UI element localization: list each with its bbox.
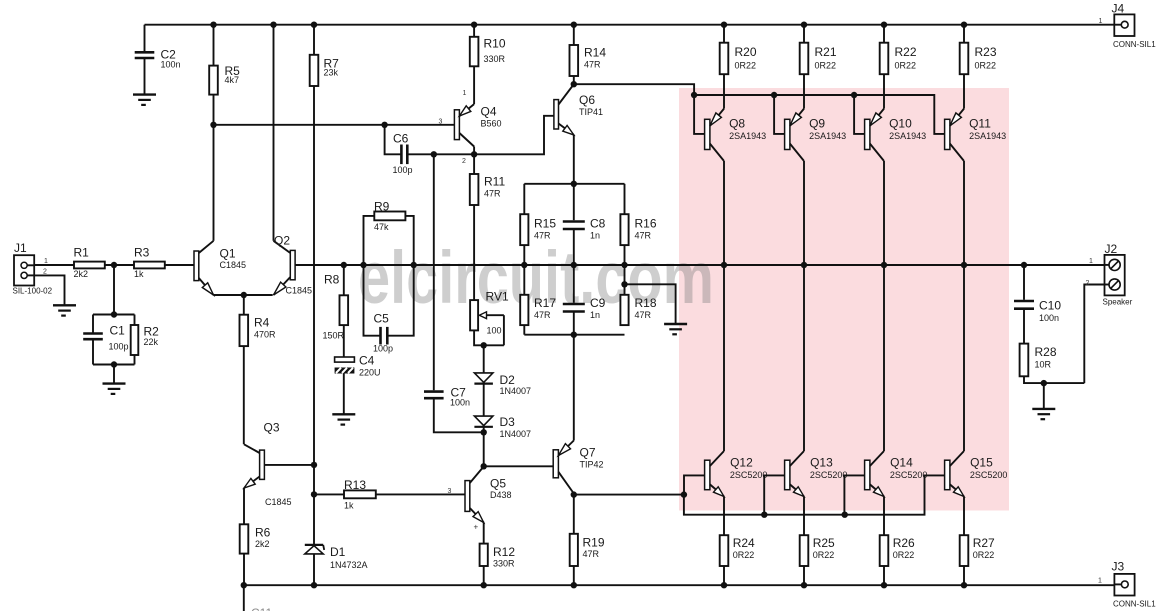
- svg-text:D2: D2: [500, 373, 516, 387]
- svg-text:R18: R18: [635, 296, 657, 310]
- node bottom rail R26: [881, 582, 887, 588]
- svg-text:Q7: Q7: [580, 446, 596, 460]
- node mid rail col Q10: [881, 262, 887, 268]
- wire R24 to rail: [723, 566, 725, 585]
- node Q6 collector R14: [571, 81, 577, 87]
- wire Q7 collector stub: [573, 494, 575, 495]
- resistor R11: [473, 154, 475, 174]
- svg-text:100p: 100p: [373, 344, 393, 354]
- wire D2 to D3: [483, 384, 485, 416]
- node network bottom center: [571, 332, 577, 338]
- node mid rail R8: [341, 262, 347, 268]
- node top rail Q2 collector: [270, 22, 276, 28]
- connector J4: [1114, 14, 1134, 36]
- wire stub below rail: [243, 585, 245, 611]
- svg-text:+: +: [474, 523, 479, 532]
- node bottom rail R27: [961, 582, 967, 588]
- svg-text:R6: R6: [255, 526, 271, 540]
- trimmer RV1: [470, 300, 478, 330]
- wire R11 to RV1: [473, 205, 475, 300]
- node lower bases entry: [681, 491, 687, 497]
- wire R1 to R3: [105, 264, 134, 266]
- node upper bases Q10: [851, 92, 857, 98]
- svg-text:Q4: Q4: [481, 105, 497, 119]
- wire R25 to rail: [803, 566, 805, 585]
- svg-text:R12: R12: [493, 545, 515, 559]
- node upper bases Q9: [771, 92, 777, 98]
- resistor R21: [803, 25, 805, 43]
- wire R26 to rail: [883, 566, 885, 585]
- svg-text:R26: R26: [893, 536, 915, 550]
- svg-text:C5: C5: [374, 312, 390, 326]
- wire lower bases bus: [684, 475, 945, 514]
- node top rail R20: [721, 22, 727, 28]
- svg-text:Q5: Q5: [490, 477, 506, 491]
- wire output mid rail: [295, 264, 1105, 266]
- wire R28 bottom bar: [1024, 376, 1084, 383]
- ground R18: [664, 323, 687, 325]
- wire Q15 emitter down: [963, 497, 965, 536]
- node mid rail C8: [571, 262, 577, 268]
- svg-text:R11: R11: [484, 175, 505, 189]
- svg-text:2SC5200: 2SC5200: [890, 470, 928, 480]
- svg-text:150R: 150R: [323, 331, 345, 341]
- ground C2: [133, 93, 156, 95]
- svg-text:0R22: 0R22: [895, 60, 917, 70]
- output stage highlight region: [679, 88, 1009, 511]
- node top rail R23: [961, 22, 967, 28]
- wire D1 to rail: [313, 554, 315, 585]
- wire J1 pin2 to ground: [34, 275, 64, 305]
- transistor Q14: [865, 460, 870, 490]
- node top rail R21: [801, 22, 807, 28]
- svg-text:1N4732A: 1N4732A: [330, 560, 368, 570]
- node top rail R5: [210, 22, 216, 28]
- node Q4 collector junction: [471, 151, 477, 157]
- wire R18 hook to ground: [625, 284, 676, 324]
- svg-text:R28: R28: [1035, 345, 1057, 359]
- transistor Q2: [290, 250, 295, 279]
- wire Q9 collector to mid rail: [803, 161, 805, 265]
- capacitor C5: [364, 265, 381, 336]
- resistor R1: [74, 262, 105, 269]
- wire RV1 node to D2: [483, 345, 485, 373]
- resistor R7: [313, 25, 315, 55]
- svg-text:D3: D3: [500, 415, 516, 429]
- transistor Q11: [945, 119, 950, 149]
- transistor Q3: [260, 450, 265, 479]
- svg-text:100: 100: [487, 326, 502, 336]
- wire R13 node to D1: [313, 494, 315, 545]
- node mid rail R16: [621, 262, 627, 268]
- svg-text:Q13: Q13: [810, 456, 833, 470]
- resistor R16: [624, 184, 626, 214]
- wire Q8 collector to mid rail: [723, 161, 725, 265]
- wire C1 R2 bottom bar: [93, 364, 135, 366]
- wire Q4 collector stub: [473, 147, 475, 155]
- wire Q13 emitter down: [803, 497, 805, 536]
- svg-text:100p: 100p: [393, 165, 413, 175]
- capacitor C8: [573, 184, 575, 220]
- svg-text:CONN-SIL1: CONN-SIL1: [1113, 40, 1156, 49]
- ground C4: [332, 413, 355, 415]
- wire Q10 collector to mid rail: [883, 161, 885, 265]
- svg-text:47R: 47R: [583, 549, 600, 559]
- svg-text:220U: 220U: [359, 367, 381, 377]
- node top rail R7: [311, 22, 317, 28]
- node C6 right junction: [431, 151, 437, 157]
- wire R4 to Q3 collector: [243, 346, 245, 444]
- wire R10 to Q4 emitter: [473, 66, 475, 104]
- node Q3 base R7 column: [311, 462, 317, 468]
- resistor R25: [800, 535, 809, 566]
- svg-text:0R22: 0R22: [735, 60, 757, 70]
- wire D3 junction down: [483, 432, 485, 466]
- svg-text:J3: J3: [1112, 560, 1125, 574]
- wire upper bases rail: [694, 95, 945, 134]
- wire Q12 emitter down: [723, 497, 725, 536]
- svg-text:R9: R9: [374, 200, 390, 214]
- wire bias rail y125: [214, 124, 455, 126]
- svg-text:R27: R27: [973, 536, 995, 550]
- svg-text:TIP42: TIP42: [580, 459, 604, 469]
- wire to ground R28: [1043, 383, 1045, 409]
- svg-text:1k: 1k: [134, 269, 144, 279]
- svg-text:C1845: C1845: [265, 497, 292, 507]
- zener D1: [305, 544, 323, 546]
- wire Q10 base hook: [854, 95, 865, 134]
- node D3 C7 junction: [481, 429, 487, 435]
- wire D3 to junction: [483, 427, 485, 432]
- wire upper base drive: [574, 84, 694, 95]
- svg-text:R21: R21: [815, 45, 837, 59]
- connector J2: [1105, 255, 1125, 296]
- node R28 ground: [1041, 380, 1047, 386]
- resistor R6: [240, 524, 249, 553]
- svg-text:RV1: RV1: [486, 290, 509, 304]
- svg-text:47R: 47R: [635, 230, 652, 240]
- svg-text:R4: R4: [254, 316, 270, 330]
- node R18 ground hook: [621, 281, 627, 287]
- resistor R18: [624, 265, 626, 295]
- node mid rail R9C5 left: [360, 262, 366, 268]
- svg-text:22k: 22k: [144, 337, 159, 347]
- wire R21 to emitter: [803, 74, 805, 108]
- svg-text:100n: 100n: [1039, 313, 1059, 323]
- svg-text:R24: R24: [733, 536, 755, 550]
- svg-text:R8: R8: [324, 273, 340, 287]
- capacitor C1: [92, 315, 94, 333]
- svg-text:2SA1943: 2SA1943: [729, 131, 766, 141]
- svg-text:R3: R3: [134, 246, 150, 260]
- node Q5 collector junction: [481, 463, 487, 469]
- svg-text:47R: 47R: [584, 59, 601, 69]
- svg-text:C11: C11: [251, 606, 272, 611]
- wire Q13 base hook: [764, 475, 784, 514]
- svg-text:2SA1943: 2SA1943: [969, 131, 1006, 141]
- svg-text:100p: 100p: [109, 342, 129, 352]
- svg-text:C1: C1: [110, 324, 126, 338]
- wire to ground below C1 R2: [113, 365, 115, 384]
- wire RC network top bar: [524, 183, 624, 185]
- node bias rail C6: [381, 122, 387, 128]
- svg-text:R10: R10: [484, 37, 506, 51]
- transistor Q9: [785, 119, 790, 149]
- capacitor C10: [1023, 265, 1025, 300]
- transistor Q6: [554, 100, 559, 129]
- resistor R19: [573, 495, 575, 534]
- svg-text:Q8: Q8: [729, 117, 745, 131]
- svg-text:1: 1: [44, 258, 48, 265]
- resistor R5: [213, 25, 215, 66]
- capacitor C7: [433, 154, 435, 390]
- svg-text:0R22: 0R22: [733, 550, 755, 560]
- svg-text:3: 3: [448, 488, 452, 495]
- node mid rail C10: [1021, 262, 1027, 268]
- node bottom rail R24: [721, 582, 727, 588]
- svg-text:2: 2: [1086, 280, 1090, 287]
- node bottom rail R6: [241, 582, 247, 588]
- wire Q1 collector up: [213, 125, 215, 241]
- node R5 bias junction: [210, 122, 216, 128]
- node Q7 collector R19: [571, 491, 577, 497]
- wire Q2 collector to rail: [273, 25, 275, 241]
- svg-text:Q12: Q12: [730, 456, 753, 470]
- node top rail R14: [571, 22, 577, 28]
- connector J1: [14, 255, 34, 285]
- svg-text:CONN-SIL1: CONN-SIL1: [1113, 600, 1156, 609]
- svg-text:3: 3: [439, 119, 443, 126]
- transistor Q13: [785, 460, 790, 490]
- wire Q9 base hook: [774, 95, 785, 134]
- svg-text:Q15: Q15: [970, 456, 993, 470]
- wire mid rail to lower collector Q9: [803, 265, 805, 451]
- svg-text:0R22: 0R22: [815, 60, 837, 70]
- svg-text:R13: R13: [344, 478, 366, 492]
- node C1 R2 bottom: [111, 361, 117, 367]
- svg-text:R14: R14: [584, 46, 606, 60]
- wire bottom rail: [244, 584, 1115, 586]
- capacitor C4: [343, 325, 345, 357]
- resistor R28: [1020, 344, 1029, 377]
- node network top center: [571, 181, 577, 187]
- wire R23 to emitter: [963, 74, 965, 108]
- transistor Q10: [865, 119, 870, 149]
- svg-text:1: 1: [1089, 258, 1093, 265]
- transistor Q7: [553, 450, 558, 478]
- svg-text:330R: 330R: [493, 558, 515, 568]
- svg-text:1: 1: [463, 90, 467, 97]
- svg-text:R17: R17: [534, 296, 556, 310]
- wire J2 pin2: [1084, 285, 1104, 384]
- svg-text:1N4007: 1N4007: [500, 429, 532, 439]
- svg-text:D1: D1: [330, 545, 346, 559]
- resistor R2: [134, 315, 136, 326]
- transistor Q12: [705, 460, 710, 490]
- svg-text:C9: C9: [590, 296, 606, 310]
- ground R28: [1032, 408, 1055, 410]
- svg-text:1: 1: [1099, 18, 1103, 25]
- node bottom rail D1: [311, 582, 317, 588]
- wire RC network bottom bar: [524, 334, 624, 336]
- svg-text:R15: R15: [534, 217, 556, 231]
- svg-text:Q14: Q14: [890, 456, 913, 470]
- wire R7 down long: [313, 86, 315, 465]
- wire Q3 emitter to R6: [243, 488, 245, 524]
- wire R22 to emitter: [883, 74, 885, 108]
- svg-text:C1845: C1845: [286, 286, 313, 296]
- capacitor C9: [573, 265, 575, 303]
- svg-text:J2: J2: [1105, 242, 1118, 256]
- svg-text:Q3: Q3: [264, 421, 280, 435]
- svg-text:TIP41: TIP41: [579, 107, 603, 117]
- svg-text:Q1: Q1: [220, 247, 236, 261]
- svg-text:C4: C4: [359, 354, 375, 368]
- wire R6 to rail: [243, 554, 245, 586]
- svg-text:Q6: Q6: [579, 93, 595, 107]
- resistor R4: [243, 295, 245, 315]
- node mid rail col Q9: [801, 262, 807, 268]
- wire emitters join: [214, 294, 273, 296]
- wire mid rail to lower collector Q11: [963, 265, 965, 451]
- wire R3 to Q1 base: [165, 264, 194, 266]
- svg-text:C1845: C1845: [220, 260, 247, 270]
- node input junction: [111, 262, 117, 268]
- svg-text:47R: 47R: [534, 230, 551, 240]
- svg-text:1n: 1n: [590, 230, 600, 240]
- svg-text:R19: R19: [583, 536, 605, 550]
- svg-text:100n: 100n: [161, 60, 181, 70]
- wire C6 to Q4 collector node: [434, 153, 474, 155]
- svg-text:47R: 47R: [635, 310, 652, 320]
- capacitor C2: [144, 25, 146, 51]
- svg-text:1n: 1n: [590, 310, 600, 320]
- svg-text:C6: C6: [393, 132, 409, 146]
- node RV1 bottom D2: [481, 342, 487, 348]
- wire mid rail to lower collector Q10: [883, 265, 885, 451]
- wire Q12 base hook: [684, 475, 705, 494]
- resistor R10: [473, 25, 475, 37]
- svg-text:Q9: Q9: [809, 117, 825, 131]
- node mid rail R9C5 right: [411, 262, 417, 268]
- wire R27 to rail: [963, 566, 965, 585]
- svg-text:2: 2: [462, 158, 466, 165]
- wire R14 to Q6: [573, 76, 575, 84]
- node top rail R22: [881, 22, 887, 28]
- node R13 junction: [311, 491, 317, 497]
- svg-text:C10: C10: [1039, 299, 1061, 313]
- svg-text:Q2: Q2: [274, 234, 290, 248]
- diode D3: [474, 416, 493, 426]
- svg-text:0R22: 0R22: [893, 550, 915, 560]
- svg-text:R23: R23: [975, 45, 997, 59]
- resistor R9: [364, 216, 375, 265]
- svg-text:47R: 47R: [484, 188, 501, 198]
- resistor R12: [480, 544, 488, 566]
- node mid rail col Q11: [961, 262, 967, 268]
- svg-text:2SC5200: 2SC5200: [970, 470, 1008, 480]
- wire R12 to rail: [483, 566, 485, 585]
- svg-text:2SC5200: 2SC5200: [810, 470, 848, 480]
- wire network to Q7 emitter: [573, 335, 575, 441]
- wire mid rail to lower collector Q8: [723, 265, 725, 451]
- transistor Q8: [705, 119, 710, 149]
- wire Q5 emitter to R12: [483, 523, 485, 544]
- resistor R17: [523, 265, 525, 295]
- ground J1: [53, 304, 76, 306]
- svg-text:J4: J4: [1112, 2, 1125, 16]
- node bottom rail R12: [481, 582, 487, 588]
- node bottom rail R25: [801, 582, 807, 588]
- node mid rail R15: [521, 262, 527, 268]
- svg-text:D438: D438: [490, 490, 512, 500]
- resistor R15: [523, 184, 525, 214]
- resistor R3: [134, 262, 165, 269]
- node emitters R4: [241, 292, 247, 298]
- wire Q5 collector node to Q7 base: [484, 465, 554, 467]
- transistor Q15: [945, 460, 950, 490]
- svg-text:Q10: Q10: [889, 117, 912, 131]
- wire Q14 emitter down: [883, 497, 885, 536]
- svg-text:10R: 10R: [1035, 359, 1052, 369]
- svg-text:2SA1943: 2SA1943: [809, 131, 846, 141]
- node upper bases entry: [691, 92, 697, 98]
- svg-text:R16: R16: [635, 217, 657, 231]
- resistor R24: [720, 535, 729, 566]
- wire R7 column to R13 node: [313, 465, 315, 495]
- svg-text:0R22: 0R22: [973, 550, 995, 560]
- svg-text:J1: J1: [14, 241, 27, 255]
- svg-text:47k: 47k: [374, 222, 389, 232]
- wire lower base drive: [574, 494, 684, 496]
- svg-text:C8: C8: [590, 217, 606, 231]
- resistor R20: [723, 25, 725, 43]
- wire C1 R2 top bar: [93, 314, 135, 316]
- svg-text:Speaker: Speaker: [1103, 298, 1133, 307]
- wire R20 to emitter: [723, 74, 725, 108]
- svg-text:0R22: 0R22: [813, 550, 835, 560]
- wire Q8 base hook: [694, 95, 705, 134]
- wire Q14 base hook: [844, 475, 864, 514]
- svg-text:2k2: 2k2: [74, 269, 89, 279]
- resistor R14: [573, 25, 575, 45]
- transistor Q4: [454, 110, 459, 140]
- svg-text:330R: 330R: [484, 54, 506, 64]
- wire input node down to C1 R2: [113, 265, 115, 315]
- node mid rail col Q8: [721, 262, 727, 268]
- wire Q3 base: [264, 464, 314, 466]
- transistor Q5: [465, 481, 470, 512]
- connector J3: [1114, 574, 1134, 596]
- capacitor C6: [385, 125, 402, 155]
- svg-text:100n: 100n: [450, 398, 470, 408]
- wire J1 pin1 to R1: [34, 264, 74, 266]
- svg-text:SIL-100-02: SIL-100-02: [13, 287, 53, 296]
- wire Q6 emitter down: [573, 135, 575, 184]
- svg-text:B560: B560: [481, 118, 502, 128]
- node lower bus Q13: [761, 512, 767, 518]
- svg-text:R1: R1: [74, 246, 90, 260]
- svg-text:47R: 47R: [534, 310, 551, 320]
- resistor R23: [963, 25, 965, 43]
- svg-text:R25: R25: [813, 536, 835, 550]
- wire Q4 node to Q6 base: [474, 116, 554, 155]
- resistor R26: [880, 535, 889, 566]
- svg-text:1N4007: 1N4007: [500, 386, 532, 396]
- resistor R22: [883, 25, 885, 43]
- resistor R27: [960, 535, 969, 566]
- resistor R8: [343, 265, 345, 295]
